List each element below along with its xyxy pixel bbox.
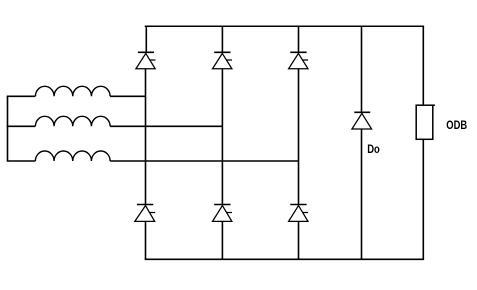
wire top DC rail (145, 25, 424, 27)
svg-text:ODB: ODB (446, 118, 467, 132)
wire leg1 bottom (T4 anode to bottom rail) (145, 221, 147, 259)
resistor ODB (load) (416, 105, 435, 139)
wire freewheel branch top (rail to Do cathode) (361, 26, 363, 112)
thyristor T5 (289, 52, 309, 69)
thyristor T3 (213, 52, 233, 69)
wire left source bus (7, 96, 9, 161)
wire leg3 middle (T5 anode through phase C node to T2 cathode) (298, 69, 300, 205)
thyristor T6 (213, 205, 233, 222)
wire leg1 middle (T1 anode through phase A node to T4 cathode) (145, 69, 147, 205)
wire phase B right lead to leg2 (110, 125, 222, 127)
wire leg2 middle (T3 anode through phase B node to T6 cathode) (221, 69, 223, 205)
inductor Lb (phase B) (35, 116, 110, 126)
wire leg3 bottom (T2 anode to bottom rail) (298, 221, 300, 259)
inductor La (phase A) (35, 86, 110, 96)
wire phase C right lead to leg3 (110, 160, 298, 162)
wire leg2 bottom (T6 anode to bottom rail) (221, 221, 223, 259)
wire phase B left lead (7, 125, 36, 127)
thyristor T2 (289, 205, 309, 222)
thyristor T4 (135, 205, 155, 222)
wire leg1 top (rail to T1 cathode) (145, 26, 147, 52)
wire leg2 top (rail to T3 cathode) (221, 26, 223, 52)
thyristor T1 (136, 52, 156, 69)
diode Do (352, 112, 372, 129)
svg-text:Do: Do (367, 142, 380, 156)
wire phase A right lead to leg1 (110, 95, 145, 97)
wire load branch top (rail to resistor) (422, 26, 424, 105)
wire freewheel branch bottom (Do anode to bottom rail) (361, 129, 363, 259)
inductor Lc (phase C) (35, 151, 110, 161)
wire leg3 top (rail to T5 cathode) (298, 26, 300, 52)
wire phase C left lead (7, 160, 36, 162)
wire load branch bottom (resistor to bottom rail) (422, 139, 424, 259)
wire phase A left lead (7, 95, 36, 97)
wire bottom DC rail (145, 258, 424, 260)
